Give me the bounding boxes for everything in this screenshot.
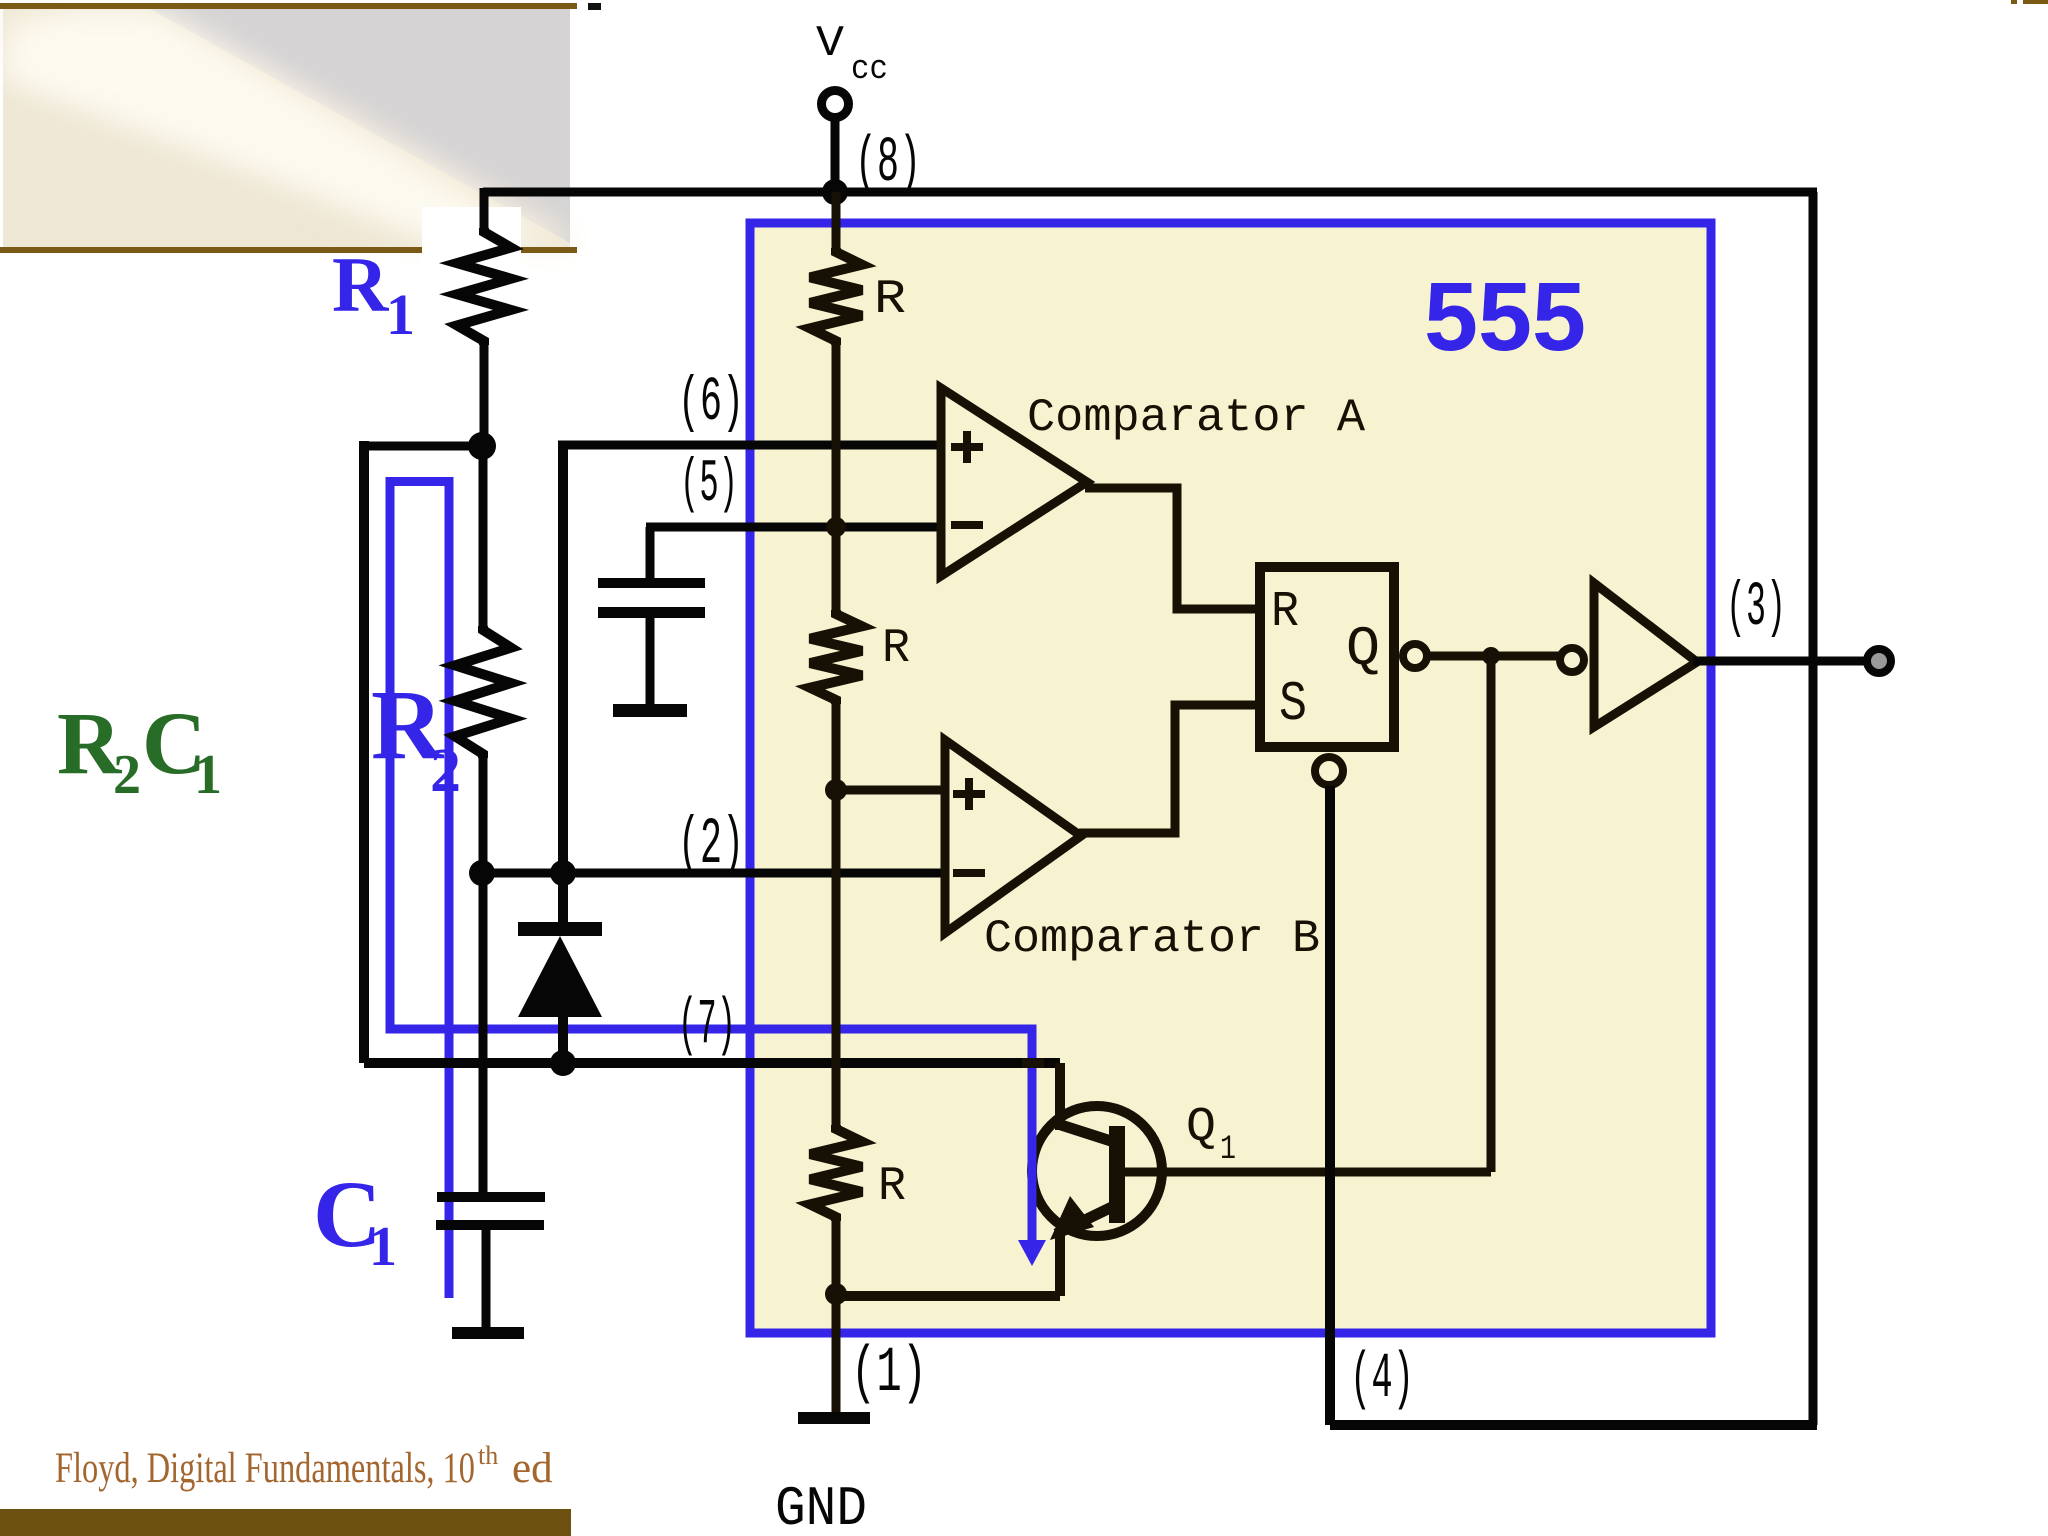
wire: internal divider vertical from pin 8 [832, 192, 841, 248]
svg-text:V: V [816, 19, 845, 69]
wire: threshold corner vertical (pin 6 line down to diode) [558, 441, 568, 923]
capacitor C1 bottom plate [436, 1220, 544, 1230]
svg-text:2: 2 [430, 737, 461, 805]
wire: Q1 base lead [1125, 1168, 1491, 1177]
svg-text:(4): (4) [1350, 1344, 1414, 1416]
svg-text:R: R [332, 241, 390, 328]
wire: comparator A output to latch R input [1085, 488, 1260, 609]
wire: R2 upper lead [479, 446, 488, 626]
resistor R (bottom of divider) [810, 1125, 862, 1221]
small black dash top centre [588, 3, 601, 10]
wire: emitter return run [836, 1291, 1060, 1301]
wire: right side vertical down to reset rail [1809, 192, 1818, 1425]
ground bar under control capacitor [613, 704, 687, 717]
node: pin 5 / comparator A minus tap [826, 517, 846, 537]
blue highlight loop top edge [386, 477, 454, 486]
node: comparator B plus tap [825, 779, 847, 801]
small brown fragments top-right corner [2011, 0, 2017, 4]
resistor R2 [455, 626, 511, 758]
wire: R2 lower lead down to C1 [479, 758, 488, 1192]
svg-text:(2): (2) [678, 807, 744, 882]
latch bottom bubble (reset enable) [1315, 757, 1343, 785]
svg-text:2: 2 [113, 744, 141, 806]
transistor Q1 body circle [1032, 1106, 1162, 1236]
comparator A triangle [941, 388, 1087, 576]
svg-text:1: 1 [386, 282, 415, 347]
wire: outer discharge loop left vertical [359, 441, 369, 1063]
svg-text:Comparator A: Comparator A [1027, 392, 1365, 444]
svg-text:Q: Q [1346, 617, 1380, 681]
blue highlight loop right vertical (down past C1) [445, 477, 454, 1298]
svg-text:R: R [1271, 584, 1299, 641]
Q1 emitter arrowhead [1050, 1196, 1094, 1240]
svg-text:S: S [1279, 672, 1307, 736]
svg-text:(3): (3) [1726, 572, 1786, 643]
comparator A minus sign [951, 521, 983, 529]
top brown rule [0, 3, 577, 9]
Q1 emitter diagonal [1056, 1207, 1112, 1234]
wire: threshold (pin 6) row into comparator A [558, 441, 945, 450]
wire: control cap lower lead [646, 618, 655, 704]
node: trigger row meets R2/C1 line [469, 860, 495, 886]
footer brown bar [0, 1509, 571, 1536]
node A: junction of R1/R2/discharge loop [468, 432, 496, 460]
wire: top rail from R1 top to right side (pin 8 rail) [483, 188, 1817, 197]
bottom brown rule of picture block [0, 247, 577, 253]
resistor R (middle of divider) [810, 610, 862, 704]
wire: Q1 collector lead from pin 7 corner [1055, 1063, 1065, 1130]
wire: control cap top lead [646, 527, 655, 578]
control capacitor bottom plate [598, 607, 705, 618]
blue current arrowhead (points down) [1018, 1240, 1046, 1266]
svg-text:cc: cc [851, 51, 888, 89]
blue highlight horizontal run to discharge transistor [386, 1025, 1037, 1034]
output buffer input bubble [1560, 648, 1584, 672]
capacitor C1 top plate [437, 1192, 545, 1202]
svg-text:1: 1 [194, 744, 222, 806]
diode D1 body (triangle pointing up) [518, 936, 602, 1017]
node: diode anode on discharge run [550, 1050, 576, 1076]
wire: C1 lower lead [482, 1230, 491, 1327]
blue highlight loop around R2 (left vertical) [386, 477, 395, 1033]
svg-text:1: 1 [1220, 1131, 1236, 1169]
svg-text:th: th [478, 1441, 498, 1470]
svg-text:R: R [882, 622, 910, 676]
node: emitter return joins divider bottom [825, 1283, 847, 1305]
wire: divider between top R and pin5 node [832, 345, 841, 610]
svg-text:R: R [874, 273, 906, 327]
svg-text:555: 555 [1424, 262, 1586, 371]
ground bar for pin 1 [798, 1412, 870, 1424]
decorative gradient picture block (top-left) [3, 9, 570, 247]
svg-text:Floyd, Digital Fundamentals, 1: Floyd, Digital Fundamentals, 10 [55, 1445, 475, 1492]
Vcc terminal circle [822, 91, 849, 118]
comparator B plus sign [953, 778, 985, 810]
latch Q output bubble [1403, 644, 1427, 668]
svg-text:(6): (6) [678, 367, 744, 438]
blue highlight vertical into pin 7 area [1028, 1025, 1037, 1243]
svg-text:(5): (5) [680, 451, 738, 519]
comparator B triangle [945, 740, 1081, 933]
diode D1 cathode bar [518, 922, 602, 936]
comparator B minus sign [953, 869, 985, 877]
svg-text:GND: GND [775, 1477, 867, 1536]
svg-text:R: R [878, 1160, 906, 1214]
wire: feedback vertical to Q1 base [1487, 656, 1496, 1172]
ground bar under C1 [452, 1327, 524, 1339]
latch box [1260, 567, 1394, 747]
node: trigger row meets diode line [550, 860, 576, 886]
wire: discharge loop bottom run to pin 7 [364, 1058, 1060, 1068]
output buffer triangle [1594, 583, 1697, 727]
resistor R1 [457, 228, 511, 345]
svg-text:Comparator B: Comparator B [984, 913, 1320, 965]
wire: node A left arm [364, 442, 482, 451]
wire: comparator B plus lead [836, 786, 945, 795]
node: Q output feedback tap [1482, 647, 1500, 665]
wire: diode anode lead [558, 1017, 568, 1063]
wire: pin 4 reset vertical [1325, 786, 1335, 1425]
wire: comparator B output to latch S input [1079, 705, 1260, 833]
wire: Vcc stem [831, 121, 840, 192]
svg-text:(8): (8) [855, 128, 921, 200]
wire: control voltage (pin 5) row [646, 523, 945, 532]
svg-text:(7): (7) [678, 990, 736, 1062]
svg-text:ed: ed [512, 1445, 553, 1492]
wire: bottom reset rail (pin 4) [1330, 1420, 1817, 1430]
white patch behind resistor R1 [422, 207, 521, 280]
svg-text:1: 1 [369, 1216, 397, 1278]
wire: R1 bottom to node A [480, 345, 489, 446]
wire: buffer output to pin 3 terminal [1693, 657, 1866, 666]
svg-text:Q: Q [1186, 1101, 1216, 1155]
transistor Q1 base bar [1109, 1126, 1125, 1223]
555 IC body (blue box, pale yellow fill) [750, 223, 1711, 1333]
wire: pin 7 run over highlight crossing [1022, 1058, 1044, 1068]
Q1 collector diagonal [1058, 1124, 1114, 1142]
control capacitor top plate [598, 578, 705, 588]
pin 3 output terminal [1867, 649, 1891, 673]
wire: Q output to buffer [1427, 652, 1560, 661]
resistor R (top of divider) [810, 248, 862, 345]
wire: divider between middle R and comparator B tap [832, 704, 841, 1125]
wire: trigger (pin 2) row [482, 869, 945, 878]
svg-text:(1): (1) [851, 1338, 927, 1410]
node: pin 8 junction dot [822, 179, 848, 205]
wire: divider bottom lead to pin 1 [832, 1221, 841, 1412]
wire: R1 top stub [480, 188, 489, 228]
wire: Q1 emitter down [1055, 1230, 1065, 1296]
comparator A plus sign [951, 431, 983, 463]
